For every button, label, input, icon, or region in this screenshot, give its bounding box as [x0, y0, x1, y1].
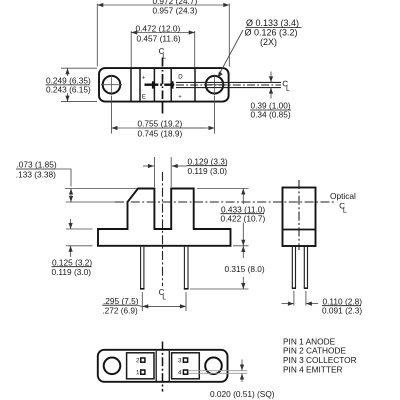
svg-text:.295 (7.5): .295 (7.5)	[103, 296, 139, 306]
front view left lead	[141, 247, 144, 289]
side view left lead	[292, 247, 295, 288]
front view body outline	[98, 189, 231, 246]
svg-text:0.243 (6.15): 0.243 (6.15)	[46, 84, 91, 94]
svg-text:0.125 (3.2): 0.125 (3.2)	[52, 257, 92, 267]
svg-text:.073 (1.85): .073 (1.85)	[17, 160, 57, 170]
dimension .295 (7.5) / .272 (6.9) lead spacing	[142, 292, 186, 311]
dimension 0.972 (24.7) / 0.957 (24.3) overall length	[97, 4, 229, 67]
svg-text:Optical: Optical	[330, 191, 356, 201]
svg-text:0.315 (8.0): 0.315 (8.0)	[225, 264, 265, 274]
svg-text:0.457 (11.6): 0.457 (11.6)	[137, 34, 181, 44]
bottom view slot line right	[168, 351, 170, 381]
top view interior vertical line x=140	[139, 68, 141, 101]
front view right lead	[184, 247, 188, 289]
top view left hole crosshair	[101, 75, 122, 95]
pin 1 label	[136, 370, 139, 374]
top view interior vertical line x=195	[194, 68, 196, 101]
pin 3 label	[178, 358, 181, 362]
label + detector bottom	[179, 95, 182, 98]
svg-text:.133 (3.38): .133 (3.38)	[16, 169, 56, 179]
top view body outline	[99, 68, 229, 102]
top view interior vertical line x=131	[130, 68, 132, 101]
svg-text:(2X): (2X)	[260, 37, 277, 47]
top view aperture tick left	[152, 81, 154, 88]
svg-text:0.422 (10.7): 0.422 (10.7)	[221, 213, 266, 223]
svg-text:0.957 (24.3): 0.957 (24.3)	[153, 6, 198, 16]
pin 2 label	[136, 358, 139, 362]
side view vertical centerline	[298, 180, 300, 250]
front view vertical centerline	[162, 172, 164, 286]
centerline symbol right of aperture	[283, 81, 288, 87]
label D detector	[179, 74, 183, 78]
top view slot left wall x=155	[153, 68, 155, 101]
svg-text:0.745 (18.9): 0.745 (18.9)	[138, 128, 183, 138]
side view body	[283, 188, 316, 247]
dimension 0.249 (6.35) / 0.243 (6.15) body width	[61, 68, 97, 101]
svg-text:0.755 (19.2): 0.755 (19.2)	[138, 118, 183, 128]
centerline symbol optical	[340, 203, 345, 209]
centerline symbol below front view	[159, 289, 164, 295]
top view left mounting hole	[103, 76, 121, 94]
hole diameter callout leader	[219, 30, 244, 76]
side view base line	[283, 229, 315, 231]
bottom view slot line left	[155, 351, 157, 381]
side view right lead	[304, 247, 307, 288]
bottom view left hole	[104, 358, 121, 375]
top view thick optical centerline dashes	[145, 84, 175, 86]
svg-text:0.119 (3.0): 0.119 (3.0)	[52, 267, 92, 277]
optical centerline horizontal	[66, 201, 115, 203]
top view right mounting hole	[206, 76, 224, 94]
pin 4 label	[178, 370, 181, 374]
bottom view body outline	[98, 350, 228, 382]
top view slot right wall x=170.5	[170, 68, 172, 101]
dimension 0.39 (1.00) / 0.34 (0.85) aperture width	[270, 72, 272, 99]
dimension 0.020 (0.51) (SQ) pin size	[241, 360, 243, 383]
svg-text:0.119 (3.0): 0.119 (3.0)	[188, 166, 228, 176]
dimension 0.110 (2.8) / 0.091 (2.3) lead row spacing	[282, 291, 319, 306]
svg-text:0.129 (3.3): 0.129 (3.3)	[188, 156, 228, 166]
svg-text:0.34 (0.85): 0.34 (0.85)	[251, 110, 291, 120]
svg-text:PIN 4 EMITTER: PIN 4 EMITTER	[283, 365, 342, 375]
pin 4 leader lines	[189, 370, 248, 372]
dimension 0.433 (11.0) / 0.422 (10.7) overall height	[197, 189, 249, 246]
top view right hole crosshair	[204, 75, 225, 95]
dimension 0.125 (3.2) / 0.119 (3.0) base thickness	[66, 219, 93, 257]
svg-text:0.091 (2.3): 0.091 (2.3)	[322, 306, 362, 316]
top view aperture centerline dash-dot	[176, 84, 281, 86]
label + emitter top	[142, 76, 145, 79]
svg-text:0.472 (12.0): 0.472 (12.0)	[136, 23, 181, 33]
dimension 0.315 (8.0) lead length	[190, 246, 249, 289]
bottom view right pin block	[172, 353, 200, 379]
dimension 0.755 (19.2) / 0.745 (18.9) hole spacing	[112, 96, 215, 134]
top view aperture lower line	[176, 87, 281, 89]
bottom view left pin block	[127, 353, 154, 379]
top view vertical centerline	[162, 58, 164, 114]
dimension 0.129 (3.3) / 0.119 (3.0) slot width	[143, 157, 187, 187]
top view aperture upper line	[176, 81, 281, 83]
dimension 0.472 (12.0) / 0.457 (11.6)	[131, 31, 195, 67]
bottom view vertical centerline	[162, 342, 164, 392]
svg-text:.272 (6.9): .272 (6.9)	[102, 305, 138, 315]
bottom view right hole	[205, 358, 222, 375]
top view aperture tick right	[171, 81, 173, 88]
svg-text:0.020 (0.51) (SQ): 0.020 (0.51) (SQ)	[210, 389, 275, 399]
centerline symbol above top view	[159, 48, 164, 54]
svg-text:Ø 0.126 (3.2): Ø 0.126 (3.2)	[245, 27, 298, 37]
label E emitter	[142, 94, 145, 98]
